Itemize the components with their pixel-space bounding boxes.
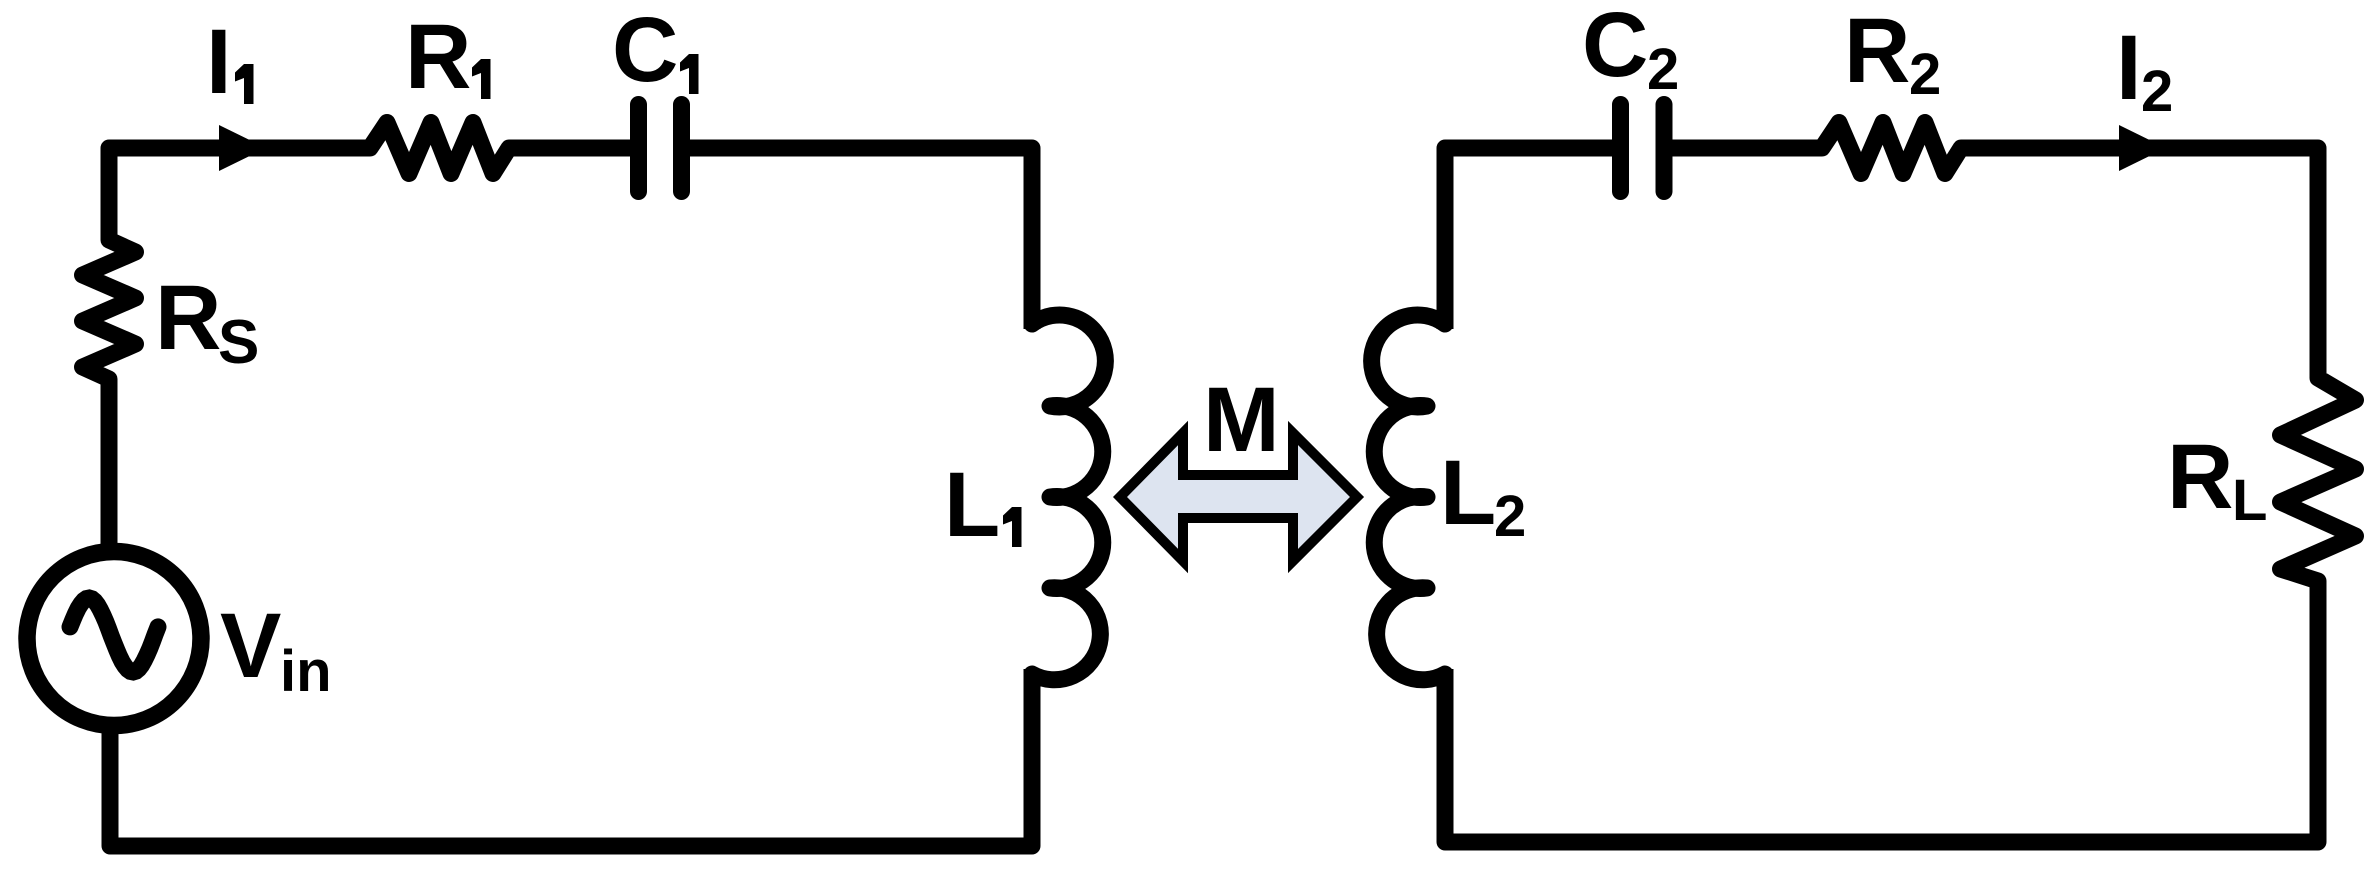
wire: left loop top segment from C1 left plate to R1 — [514, 140, 633, 157]
svg-text:L: L — [2232, 468, 2267, 533]
resistor RL — [2281, 368, 2356, 591]
voltage source Vin sine symbol — [70, 598, 158, 672]
wire: right loop top left segment from L2 top to C2 left plate — [1445, 148, 1616, 329]
inductor L2 — [1372, 310, 1445, 688]
resistor R1 — [360, 123, 519, 174]
svg-text:R: R — [155, 267, 221, 369]
svg-text:R: R — [2167, 426, 2233, 528]
wire: C2 right plate to R2 — [1668, 140, 1818, 157]
label R1 subscript 1 — [472, 59, 491, 99]
svg-text:S: S — [218, 308, 259, 377]
svg-text:2: 2 — [1494, 484, 1526, 549]
capacitor C1 right plate — [673, 105, 690, 192]
resistor RS — [83, 230, 136, 389]
inductor L1 — [1032, 310, 1105, 688]
label I1 subscript 1 — [235, 64, 254, 104]
svg-text:L: L — [944, 454, 1000, 556]
svg-text:2: 2 — [1647, 37, 1679, 102]
capacitor C2 left plate — [1612, 105, 1629, 192]
capacitor C2 right plate — [1656, 105, 1673, 192]
svg-text:R: R — [1844, 0, 1910, 102]
label L1 subscript 1 — [1003, 507, 1022, 547]
mutual inductance coupling arrow M — [1120, 433, 1357, 561]
wire: R2 through I2 arrow position, top-right corner, down to RL — [1966, 148, 2318, 373]
svg-text:V: V — [220, 595, 281, 697]
svg-text:in: in — [280, 639, 332, 704]
current arrow I1 — [219, 125, 266, 171]
label C1 subscript 1 — [680, 54, 699, 94]
voltage source Vin circle — [27, 552, 201, 726]
svg-text:I: I — [206, 11, 232, 113]
wire: left loop top-left corner, through I1 arrow position, down to RS — [109, 148, 365, 235]
svg-text:L: L — [1440, 442, 1496, 544]
capacitor C1 left plate — [630, 105, 647, 192]
svg-text:C: C — [612, 0, 678, 101]
wire: RS down to Vin source — [101, 384, 118, 555]
svg-text:C: C — [1582, 0, 1648, 96]
svg-text:2: 2 — [1909, 42, 1941, 107]
current arrow I2 — [2119, 125, 2166, 171]
wire: Vin source to left loop bottom, bottom wire, up to inductor L1 — [110, 669, 1032, 846]
resistor R2 — [1812, 123, 1971, 174]
wire: L2 bottom, right loop bottom wire, up to RL — [1445, 586, 2318, 842]
wire: left loop top right segment from C1 right plate, corner, down to L1 — [686, 148, 1032, 329]
svg-text:M: M — [1203, 369, 1280, 471]
svg-text:I: I — [2116, 17, 2142, 119]
svg-text:R: R — [405, 6, 471, 108]
svg-text:2: 2 — [2141, 59, 2173, 124]
